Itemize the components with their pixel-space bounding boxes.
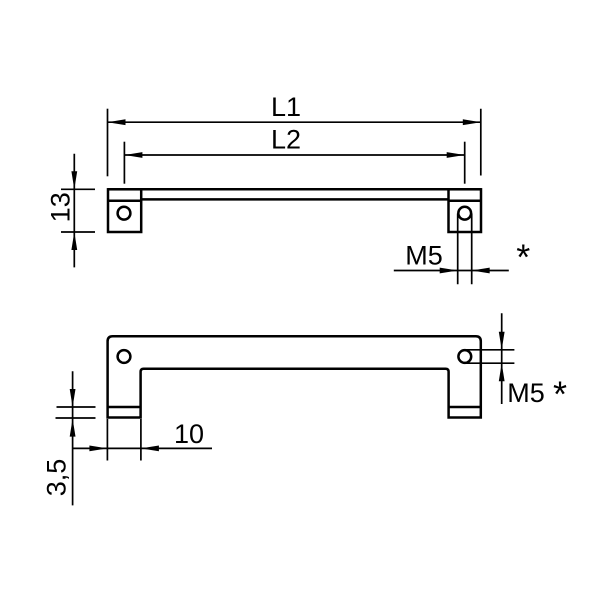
svg-text:10: 10 — [174, 419, 204, 449]
dimension 3,5 arrow top — [70, 389, 76, 407]
left hole (front view) — [118, 350, 131, 363]
dimension M5 arrow top (front view) — [499, 332, 505, 350]
left mounting hole (top view) — [118, 207, 131, 220]
left foot clamp line (top view) — [108, 200, 141, 203]
svg-text:*: * — [516, 237, 530, 278]
dimension L1 extension line left — [107, 109, 109, 177]
dimension 10 extension line left — [106, 419, 108, 461]
dimension M5 line (front view) — [501, 313, 503, 404]
dimension 13 line — [73, 154, 75, 268]
dimension 3,5 line — [72, 371, 74, 505]
right mounting hole (top view) — [458, 207, 471, 220]
left foot block (top view) — [108, 189, 141, 232]
right foot clamp line (top view) — [449, 200, 482, 203]
dimension L1 arrow right — [463, 119, 481, 125]
dimension M5 line (top view) — [394, 270, 509, 272]
right foot block (top view) — [449, 189, 482, 232]
dimension L1 line — [108, 121, 481, 123]
right foot step line (front view) — [449, 406, 481, 409]
dimension M5 arrow left (top view) — [440, 268, 458, 274]
svg-text:13: 13 — [46, 192, 76, 222]
handle bar top edge (top view) — [108, 188, 481, 191]
dimension M5 tangent tick top (front view) — [465, 349, 515, 351]
dimension L1 arrow left — [108, 119, 126, 125]
dimension M5 tangent tick bottom (front view) — [465, 362, 515, 364]
svg-text:3,5: 3,5 — [42, 459, 72, 497]
dimension L2 extension line right — [464, 142, 466, 184]
left foot step line (front view) — [108, 406, 141, 409]
dimension L1 extension line right — [480, 109, 482, 176]
right hole (front view) — [458, 350, 471, 363]
dimension 13 arrow top — [71, 171, 77, 189]
dimension M5 arrow right (top view) — [472, 268, 490, 274]
svg-text:M5: M5 — [405, 241, 443, 271]
dimension 10 line — [73, 447, 212, 449]
dimension 3,5 tick top — [57, 406, 96, 408]
dimension M5 extension line right (top view) — [471, 214, 473, 285]
handle bar bottom edge (top view) — [141, 198, 448, 201]
dimension M5 arrow bottom (front view) — [499, 363, 505, 381]
dimension 3,5 tick bottom — [56, 417, 96, 419]
svg-text:L2: L2 — [271, 125, 301, 155]
dimension 10 arrow left — [89, 446, 107, 452]
svg-text:L1: L1 — [271, 92, 301, 122]
dimension 10 arrow right — [141, 446, 159, 452]
dimension M5 extension line left (top view) — [457, 214, 459, 285]
dimension 13 arrow bottom — [71, 232, 77, 250]
dimension L2 line — [124, 154, 464, 156]
bracket outline (front view) — [108, 336, 481, 417]
dimension 13 tick bottom — [61, 231, 95, 233]
dimension L2 extension line left — [123, 142, 125, 184]
dimension 10 extension line right — [140, 419, 142, 461]
svg-text:M5: M5 — [507, 378, 545, 408]
dimension L2 arrow right — [447, 152, 465, 158]
dimension L2 arrow left — [124, 152, 142, 158]
dimension 13 tick top — [61, 188, 95, 190]
svg-text:*: * — [553, 374, 567, 415]
dimension 3,5 arrow bottom — [70, 419, 76, 437]
